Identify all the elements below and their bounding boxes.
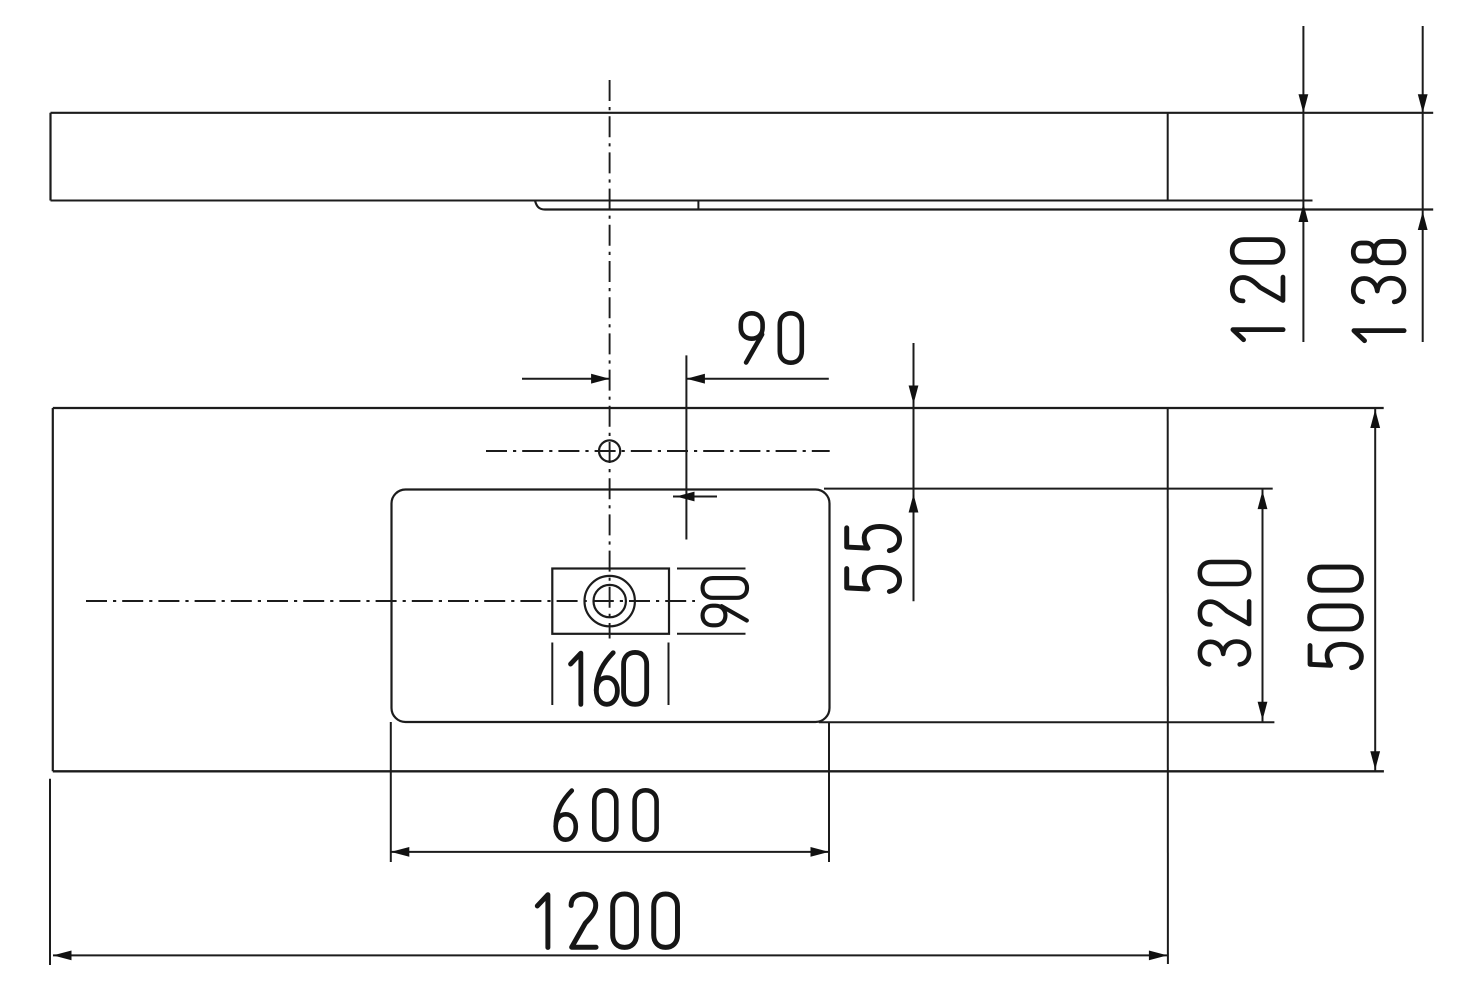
dimension 120 line (1302, 26, 1304, 342)
label 90 small (rotated, drain) (703, 578, 747, 625)
vertical centerline (609, 80, 611, 639)
basin top extension line (824, 488, 1273, 490)
dimension 90 top: extension line (685, 355, 687, 539)
label 600 (556, 790, 657, 839)
dim 600 arrows (391, 847, 410, 857)
dimension 1200 line (53, 954, 1167, 956)
label 500 (rotated) (1310, 567, 1362, 668)
drain inner circle (594, 585, 626, 617)
label 1200 (537, 894, 677, 947)
dimension 500 line (1374, 408, 1376, 771)
dim 90 top arrows (591, 374, 610, 384)
basin lip step (535, 201, 545, 210)
drain dim 90: upper extension (677, 568, 746, 570)
countertop left edge (49, 113, 51, 201)
countertop top surface line (51, 112, 1434, 114)
dim 160 left flank line (551, 643, 553, 706)
dimension 600: right extension (828, 722, 830, 862)
side view right-section divider (1167, 113, 1169, 201)
dim 55 arrows (909, 386, 919, 405)
dim 138 arrows (1418, 94, 1428, 113)
faucet hole circle (599, 440, 620, 461)
label 138 (rotated) (1353, 241, 1404, 340)
label 55 (rotated) (847, 527, 900, 592)
faucet hole horizontal centerline (486, 450, 830, 452)
plan right-section divider (1167, 408, 1169, 964)
dimension 600 line (391, 851, 829, 853)
lip junction tick (697, 201, 699, 210)
drain dim 90: lower extension (677, 633, 746, 635)
label 120 (rotated) (1232, 240, 1283, 340)
drain outer circle (585, 576, 635, 626)
drain rectangle (552, 569, 669, 634)
dimension 320 line (1262, 489, 1264, 723)
dimension 90 top: right segment (686, 378, 828, 380)
plan bottom edge (53, 770, 1384, 772)
small tick with arrow near basin top (673, 496, 717, 498)
drain horizontal centerline (86, 600, 695, 602)
dimension 1200: left extension (49, 779, 51, 965)
label 320 (rotated) (1200, 562, 1249, 664)
basin rounded rectangle (392, 490, 830, 723)
dim 320 arrows (1258, 491, 1268, 510)
dim 120 arrows (1299, 94, 1309, 113)
basin bottom extension line (819, 721, 1275, 723)
small tick arrow (676, 492, 695, 502)
dim 160 right flank line (668, 643, 670, 706)
plan top edge (53, 407, 1384, 409)
label 90 (faucet offset) (741, 313, 802, 362)
dimension 90 top: left segment (522, 378, 610, 380)
plan left edge (52, 408, 54, 771)
dim 1200 arrows (53, 951, 72, 961)
basin lip bottom line (545, 208, 1433, 210)
dimension 600: left extension (390, 722, 392, 862)
label 160 (571, 652, 647, 704)
dim 500 arrows (1370, 410, 1380, 429)
dimension 55 line (913, 343, 915, 601)
countertop bottom edge line (51, 200, 1313, 202)
dimension 138 line (1422, 26, 1424, 342)
